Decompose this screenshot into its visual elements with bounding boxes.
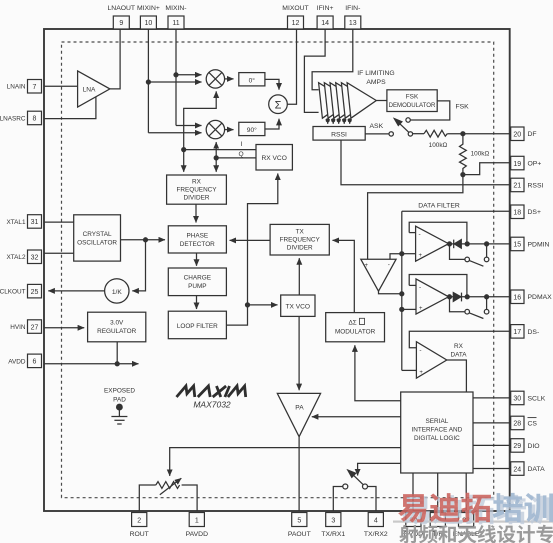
svg-text:-: - [419,347,421,354]
wire resistor to pin 20 DF [447,133,510,135]
svg-text:CHARGE: CHARGE [184,275,211,282]
pin 13 IFIN- box [345,16,361,29]
phase shifter 0 deg [239,73,265,86]
wire LO to mixer2 [215,142,217,158]
svg-text:RX: RX [192,179,202,186]
diode D2 (points right) [453,293,461,302]
block crystal oscillator [74,215,121,261]
block RSSI [313,127,365,141]
block loop filter [168,311,226,339]
diode D1 (points left) [454,240,462,249]
wire AVDD pin 6 rail [44,363,139,365]
wire MIXIN- to mixer2 upper input [176,125,202,127]
switch comp1 bypass [450,244,489,266]
svg-text:CLKOUT: CLKOUT [0,289,26,296]
svg-text:15: 15 [513,242,521,249]
pin 10 MIXIN+ box [140,16,156,29]
svg-text:SERIAL: SERIAL [426,418,449,425]
pin 6 AVDD box [28,354,42,368]
svg-text:LNA: LNA [83,87,96,94]
svg-text:1: 1 [195,518,199,525]
wire op-amp output to DS+ bus [379,291,402,294]
svg-text:LNAOUT: LNAOUT [108,5,136,12]
wire comparator1 feedback to minus input [409,232,415,234]
block serial interface and digital logic [401,392,473,473]
node I junction [182,148,186,152]
wire LNAIN pin7 to LNA [44,85,77,87]
node comp1 after diode [465,242,469,246]
resistor ROUT variable [139,478,197,511]
svg-text:4: 4 [374,518,378,525]
node FSK contact [406,118,410,122]
svg-text:3: 3 [331,518,335,525]
block charge pump [168,268,226,296]
wire DS+ vertical bus [401,211,403,370]
wire serial logic to delta-sigma [355,345,401,400]
watermark blue text 培训 [493,493,553,522]
node MIXIN+ junction [146,80,150,84]
pin 2 ROUT box [132,513,147,527]
wire serial to pin 30 SCLK [473,397,511,399]
node comp2 after diode [465,295,469,299]
svg-text:ASK: ASK [370,123,384,130]
block TX frequency divider [270,224,329,255]
svg-text:CS: CS [528,420,538,427]
wire DS+ bus to RX data comparator [402,369,417,371]
svg-text:100kΩ: 100kΩ [429,142,448,149]
pin 29 DIO box [511,439,524,453]
wire junction to comparator1 input [402,253,416,255]
svg-text:DEMODULATOR: DEMODULATOR [389,102,436,109]
label RX DATA [450,343,467,359]
svg-text:10: 10 [145,20,153,27]
inner dashed border [62,42,494,498]
wire oscillator to phase detector [121,239,166,241]
wire comparator2 feedback loop [409,275,467,295]
wire XTAL1 to oscillator [44,221,74,223]
svg-text:IFIN+: IFIN+ [317,5,334,12]
wire LNASRC pin8 to LNA bottom slope [44,97,96,119]
pin 12 MIXOUT box [288,16,304,29]
block RX VCO [256,145,292,171]
svg-text:CRYSTAL: CRYSTAL [83,231,112,238]
label IF LIMITING AMPS [357,70,394,86]
svg-text:DATA: DATA [450,352,467,359]
svg-text:DIVIDER: DIVIDER [184,195,210,202]
wire DS+ node to pin 18 [402,210,511,212]
pin 14 IFIN+ box [317,16,333,29]
svg-text:FREQUENCY: FREQUENCY [176,187,217,194]
mixer I (multiplier) [206,70,224,88]
svg-text:PAOUT: PAOUT [288,531,311,538]
wire junction to TX VCO input [248,304,278,306]
pin 22 DVDD box [406,513,421,527]
node comp1 switch right [485,242,489,246]
pin 20 DF box [511,127,524,141]
wire serial to pin 23 ENABLE [465,473,467,511]
wire junction to pin 19 OP+ [463,163,511,175]
pin 7 LNAIN box [28,80,42,94]
svg-text:PA: PA [295,405,304,412]
block 3.0V regulator [88,312,146,342]
wire comparator2 feedback to minus input [409,284,416,286]
wire switch pole to 100k resistor [413,133,424,135]
svg-text:MODULATOR: MODULATOR [335,329,376,336]
svg-text:29: 29 [513,443,521,450]
wire RX VCO I output [184,149,256,151]
svg-text:AMPS: AMPS [366,79,386,86]
wire RX divider to phase detector [195,204,197,222]
svg-text:PAD: PAD [113,397,126,404]
wire TX VCO to TX divider [298,258,300,295]
wire PA output to pin 5 PAOUT [298,437,300,511]
MAXIM logo [177,386,246,397]
svg-text:ΔΣ: ΔΣ [348,320,356,327]
svg-text:21: 21 [513,183,521,190]
pin 31 XTAL1 box [28,215,42,229]
wire serial to pin 22 DVDD [412,473,414,511]
wire IFIN+ pin14 to IF amps lower input [304,29,325,112]
svg-text:25: 25 [31,289,39,296]
wire junction to comparator2 input [402,308,416,310]
wire LNA output to pin 9 LNAOUT [110,29,120,89]
svg-text:100kΩ: 100kΩ [471,151,490,158]
block RX frequency divider [167,175,227,204]
svg-text:MAX7032: MAX7032 [193,400,231,410]
wire TX VCO to PA [298,316,300,390]
wire MIXIN- pin11 down [175,29,177,126]
wire IFIN- pin13 to IF amps upper input [312,29,353,90]
svg-text:-: - [419,284,421,291]
svg-text:DATA: DATA [528,466,546,473]
wire Q to RX frequency divider [215,158,217,172]
svg-text:31: 31 [31,219,39,226]
svg-text:DETECTOR: DETECTOR [180,241,215,248]
svg-text:SCLK: SCLK [528,395,546,402]
svg-text:LNASRC: LNASRC [0,115,26,122]
pin 28 CS box [511,416,524,430]
svg-text:32: 32 [31,255,39,262]
wire mixer1 to 0-deg block [225,78,234,80]
wire comparator1 feedback loop [409,222,467,242]
wire op-amp feedback input [390,254,402,260]
pin 23 ENABLE box [459,513,474,527]
svg-text:Q: Q [239,151,244,158]
node Q junction [214,156,218,160]
node OP+ junction [461,173,465,177]
svg-text:I: I [241,141,243,148]
block delta-sigma modulator [326,313,385,342]
wire MIXIN+ to mixer1 lower input [148,81,201,83]
wire serial to PA control [312,416,401,418]
svg-text:18: 18 [513,210,521,217]
svg-text:+: + [419,253,423,259]
pin 24 DATA box [511,462,524,476]
svg-text:FREQUENCY: FREQUENCY [280,237,321,244]
wire MIXIN- to mixer1 upper input [176,74,202,76]
wire serial to pin 26 T/R [437,473,439,511]
svg-text:RX: RX [454,343,464,350]
svg-text:XTAL1: XTAL1 [6,219,26,226]
svg-text:16: 16 [513,295,521,302]
svg-text:PDMIN: PDMIN [528,241,550,248]
wire FSK demod output to FSK switch contact [410,101,449,120]
pin 5 PAOUT box [292,513,307,527]
watermark underline [393,521,553,523]
amplifier PA [277,393,320,436]
wire 1/K to pin 25 CLKOUT [48,290,104,292]
pin 27 HVIN box [28,320,42,334]
wire junction to RX VCO input [248,174,278,305]
switch TX/RX [333,470,376,511]
svg-text:PDMAX: PDMAX [528,294,553,301]
svg-text:DATA FILTER: DATA FILTER [418,202,460,209]
pin 3 TX/RX1 box [326,513,341,527]
svg-text:14: 14 [321,20,329,27]
svg-text:19: 19 [513,161,521,168]
resistor 100k vertical [460,134,467,175]
node ASK contact [389,132,393,136]
mixer Q (multiplier) [206,120,224,138]
svg-text:ROUT: ROUT [130,531,149,538]
wire RX VCO Q output [216,157,256,159]
pin 15 PDMIN box [511,237,524,251]
pin 18 DS+ box [511,205,524,219]
svg-text:DIO: DIO [528,443,540,450]
svg-text:20: 20 [513,132,521,139]
switch ASK/FSK selector [394,119,412,136]
node comp2 switch right [485,295,489,299]
pin 16 PDMAX box [511,290,524,304]
svg-text:FSK: FSK [406,94,419,101]
svg-text:6: 6 [33,359,37,366]
wire RSSI block to pin 21 RSSI [341,140,511,185]
svg-text:90°: 90° [247,126,257,134]
wire 0-deg to summer [265,79,279,89]
svg-text:DF: DF [528,131,537,138]
svg-text:30: 30 [513,396,521,403]
svg-text:DS-: DS- [528,329,540,336]
svg-text:MIXOUT: MIXOUT [282,5,308,12]
wire MIXIN+ to mixer2 lower input [148,132,201,134]
wire comparator1 output line to pin 15 PDMIN [449,243,511,245]
svg-text:+: + [419,370,423,376]
IF limiting amplifier stack [319,83,377,119]
wire DS- pin 17 to RX data comparator [409,331,510,348]
svg-text:OSCILLATOR: OSCILLATOR [77,240,117,247]
wire delta-sigma to TX divider [333,240,355,312]
op-amp data filter [361,259,396,291]
summer sigma [269,95,288,114]
pin 32 XTAL2 box [28,250,42,264]
svg-text:2: 2 [137,518,141,525]
svg-text:Σ: Σ [275,99,282,111]
comparator RX DATA [416,342,446,379]
amplifier LNA [78,71,110,107]
svg-text:IF LIMITING: IF LIMITING [357,70,394,77]
pin 19 OP+ box [511,156,524,170]
wire RSSI to ASK contact [365,133,389,135]
watermark gray text 射频和天线设计专家 [399,525,553,543]
wire junction to divide-by-K [132,240,145,291]
node DS+ comp1 junction [400,252,404,256]
svg-text:DS+: DS+ [528,209,541,216]
svg-text:OP+: OP+ [528,161,542,168]
svg-text:INTERFACE AND: INTERFACE AND [412,427,463,434]
wire IF amps to FSK demodulator [376,100,387,102]
wire mixer2 to 90-deg block [225,129,234,131]
svg-text:TX/RX1: TX/RX1 [321,531,345,538]
comparator PDMIN [416,226,449,261]
wire loop filter to TX VCO [226,305,247,325]
node reference junction [144,238,148,242]
svg-text:IFIN-: IFIN- [345,5,360,12]
wire junction to data filter op-amp input [368,175,463,260]
wire serial to pin 28 CS [473,422,511,424]
switch comp2 bypass [450,297,489,319]
svg-text:RSSI: RSSI [528,182,544,189]
svg-text:-: - [388,262,390,269]
wire serial to TX/RX switch control [358,463,401,475]
svg-text:AVDD: AVDD [8,358,26,365]
svg-text:PUMP: PUMP [188,283,206,290]
pin 1 PAVDD box [189,513,204,527]
wire serial to pin 29 DIO [473,444,511,446]
svg-text:DIVIDER: DIVIDER [287,245,313,252]
svg-text:EXPOSED: EXPOSED [104,388,135,395]
svg-text:3.0V: 3.0V [110,320,124,327]
wire RX data output to serial logic [447,360,467,392]
ground exposed pad [111,404,127,424]
svg-text:11: 11 [172,20,179,27]
block phase detector [168,226,226,253]
svg-text:27: 27 [31,324,39,331]
svg-text:7: 7 [33,84,37,91]
wire I to RX frequency divider [183,150,185,172]
svg-text:24: 24 [513,466,521,473]
phase shifter 90 deg [239,122,265,135]
svg-text:LOOP FILTER: LOOP FILTER [177,323,218,330]
resistor 100k horizontal [424,130,447,137]
svg-text:MIXIN-: MIXIN- [165,5,186,12]
node AVDD junction [115,362,119,366]
svg-text:PAVDD: PAVDD [186,531,208,538]
node DF junction [461,132,465,136]
svg-text:FSK: FSK [456,104,470,111]
wire summer to pin 12 MIXOUT [287,29,296,104]
svg-text:5: 5 [297,518,301,525]
svg-text:-: - [419,231,421,238]
svg-text:9: 9 [119,20,123,27]
pin 17 DS- box [511,325,524,339]
node comp1 output [448,242,452,246]
pin 9 LNAOUT box [113,16,129,29]
wire ROUT control line [170,448,401,476]
pin 30 SCLK box [511,391,524,405]
divider 1/K [105,279,129,303]
wire 90-deg to summer [265,119,279,129]
wire comparator2 output line to pin 16 PDMAX [449,296,511,298]
wire LO to mixer1 [184,91,217,149]
block TX VCO [281,295,315,316]
pin 25 CLKOUT box [28,284,42,298]
outer border frame [44,29,510,511]
svg-text:PHASE: PHASE [186,233,208,240]
comparator PDMAX [416,279,449,314]
svg-text:0°: 0° [249,76,256,84]
svg-text:RX VCO: RX VCO [262,155,287,162]
wire HVIN to regulator [44,327,84,329]
wire XTAL2 to oscillator [44,252,74,254]
wire TX divider to phase detector [230,239,271,241]
label EXPOSED PAD [104,388,135,404]
pin 8 LNASRC box [28,111,42,125]
pin 4 TX/RX2 box [368,513,383,527]
block FSK demodulator [387,90,437,112]
svg-text:DIGITAL LOGIC: DIGITAL LOGIC [414,435,460,442]
node op-amp output junction [400,292,404,296]
watermark red text 易迪拓 [398,493,491,523]
node MIXIN- junction [174,73,178,77]
svg-text:HVIN: HVIN [10,324,26,331]
pin 26 T/R box [430,513,445,527]
svg-text:MIXIN+: MIXIN+ [137,5,160,12]
wire MIXIN+ pin10 down [147,29,149,133]
svg-text:RSSI: RSSI [331,132,347,139]
svg-text:12: 12 [292,20,300,27]
svg-text:LNAIN: LNAIN [7,84,26,91]
svg-text:TX/RX2: TX/RX2 [364,531,388,538]
svg-text:+: + [365,263,369,269]
svg-text:28: 28 [513,421,521,428]
svg-text:TX VCO: TX VCO [286,304,311,311]
pin 21 RSSI box [511,178,524,192]
node comp2 junction [400,307,404,311]
wire charge pump to loop filter [196,296,198,309]
svg-text:REGULATOR: REGULATOR [97,328,137,335]
node comp2 output [448,295,452,299]
svg-text:8: 8 [33,116,37,123]
svg-text:17: 17 [513,329,521,336]
node tune junction [246,303,250,307]
wire phase detector to charge pump [196,253,198,266]
svg-text:TX: TX [296,229,305,236]
svg-text:13: 13 [349,20,357,27]
svg-text:+: + [419,306,423,312]
svg-text:XTAL2: XTAL2 [6,254,26,261]
pin 11 MIXIN- box [168,16,184,29]
svg-text:1/K: 1/K [112,289,122,296]
watermark shadow text 易迪拓培训 [402,495,553,525]
wire regulator to AVDD rail [116,342,118,364]
wires IF amps to RSSI detector taps [326,119,351,124]
wire serial to pin 24 DATA [473,468,511,470]
